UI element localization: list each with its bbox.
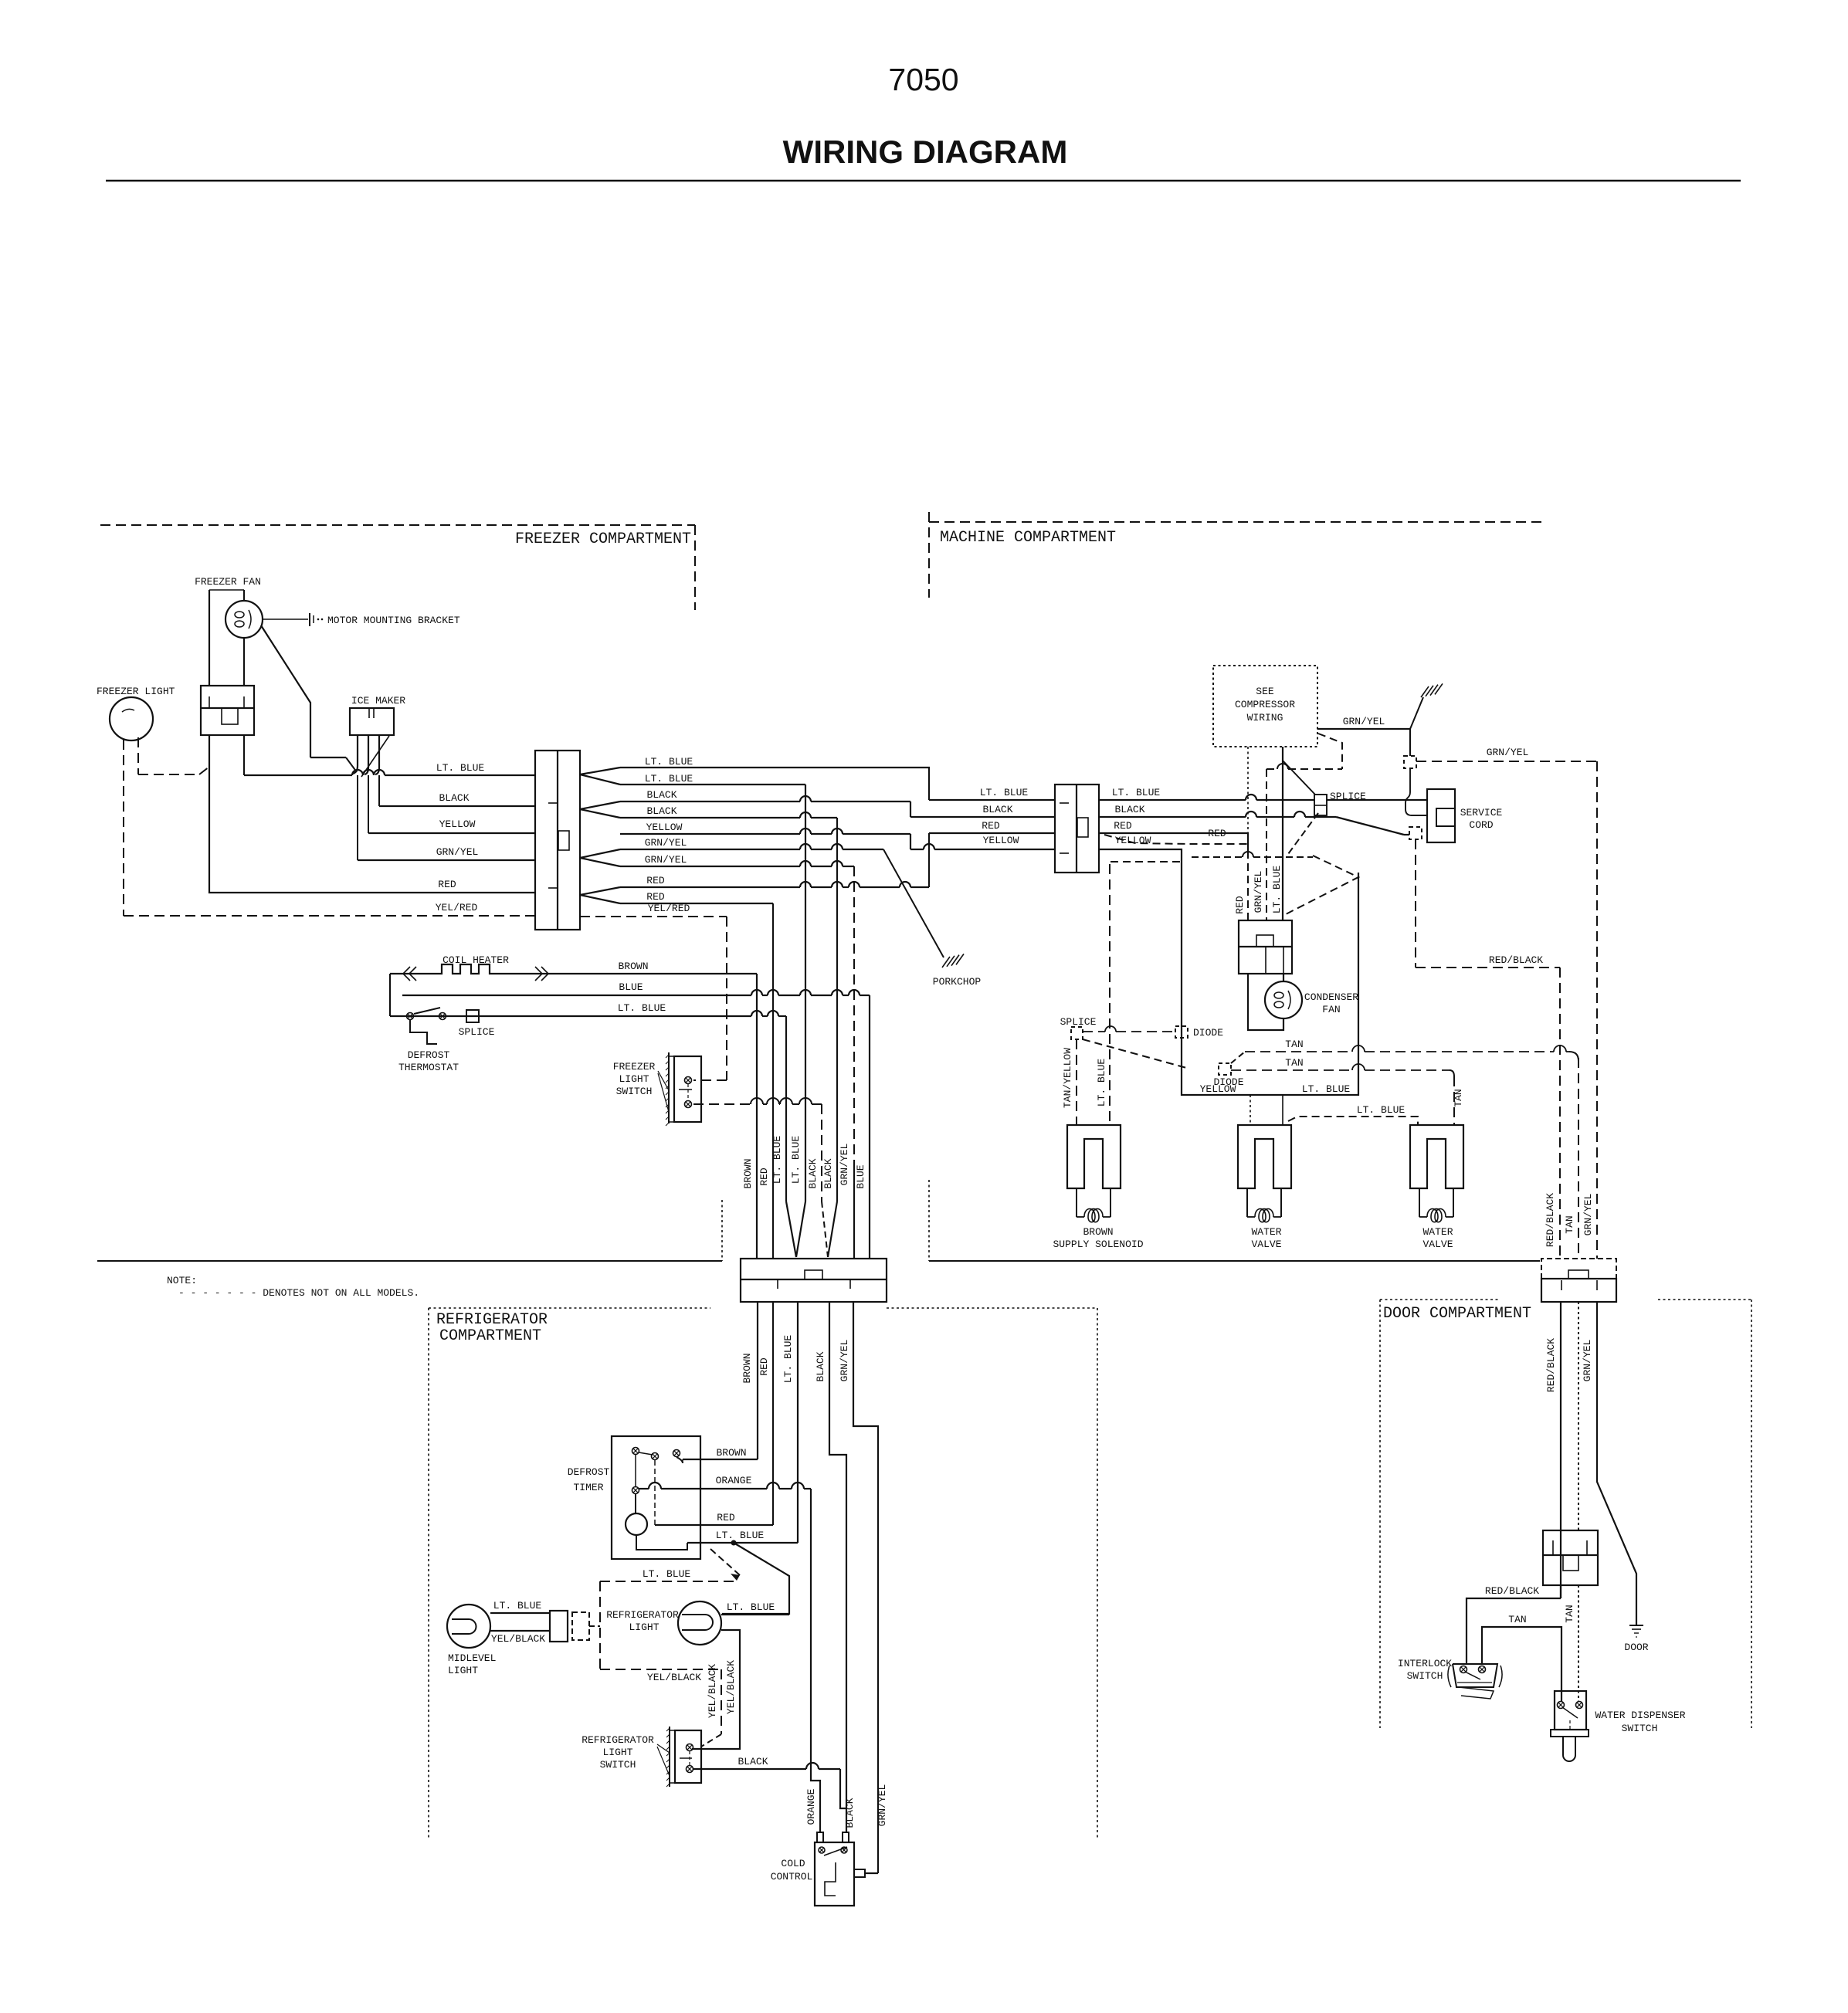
svg-text:VALVE: VALVE: [1251, 1239, 1281, 1250]
wire pair RED out of C1: [580, 887, 620, 895]
svg-text:FREEZER COMPARTMENT: FREEZER COMPARTMENT: [515, 530, 691, 548]
door connector D2: [1543, 1530, 1598, 1585]
brown supply solenoid SOL1: [1067, 1125, 1121, 1188]
svg-text:ORANGE: ORANGE: [716, 1475, 752, 1486]
wire BROWN vertical drop: [756, 974, 758, 1259]
svg-text:YELLOW: YELLOW: [646, 822, 683, 833]
svg-text:RED: RED: [438, 879, 456, 890]
svg-text:INTERLOCK: INTERLOCK: [1398, 1658, 1452, 1669]
freezer fan label underline: [209, 589, 244, 591]
wire RED freezer fan to connector C1: [209, 735, 535, 893]
wire BLACK b turns down: [620, 817, 800, 818]
svg-text:THERMOSTAT: THERMOSTAT: [398, 1062, 459, 1073]
svg-text:SPLICE: SPLICE: [459, 1026, 495, 1038]
svg-text:MOTOR MOUNTING BRACKET: MOTOR MOUNTING BRACKET: [327, 615, 460, 626]
svg-text:LT. BLUE: LT. BLUE: [782, 1335, 794, 1384]
svg-text:RED: RED: [1208, 828, 1226, 839]
door compartment border left: [1379, 1300, 1381, 1728]
svg-text:FREEZER: FREEZER: [613, 1061, 656, 1073]
svg-text:SWITCH: SWITCH: [1622, 1723, 1658, 1734]
splice S2: [1314, 795, 1327, 815]
freezer compartment border top: [100, 524, 695, 526]
interlock switch SW3: [1453, 1664, 1497, 1687]
svg-text:ORANGE: ORANGE: [805, 1788, 817, 1825]
diode D2: [1219, 1063, 1231, 1075]
svg-text:DEFROST: DEFROST: [568, 1466, 610, 1478]
svg-text:DOOR COMPARTMENT: DOOR COMPARTMENT: [1383, 1305, 1531, 1323]
svg-text:GRN/YEL: GRN/YEL: [436, 846, 479, 858]
svg-text:LIGHT: LIGHT: [629, 1622, 659, 1633]
wire LT. BLUE b turns down: [620, 784, 805, 785]
svg-text:RED: RED: [982, 820, 1000, 832]
see compressor wiring box: [1213, 666, 1317, 747]
door ground symbol: [1629, 1625, 1643, 1626]
svg-text:BLUE: BLUE: [619, 981, 643, 993]
svg-text:BLACK: BLACK: [815, 1351, 826, 1381]
wire YELLOW to connector C2m: [620, 833, 800, 835]
svg-text:LT. BLUE: LT. BLUE: [1357, 1104, 1405, 1116]
wire ORANGE vertical: [811, 1489, 820, 1832]
wire dashed splice diagonal to diode D2: [1083, 1039, 1189, 1069]
svg-text:DOOR: DOOR: [1624, 1642, 1648, 1653]
connector C2 (refrigerator harness): [741, 1259, 887, 1302]
wire BLACK refrigerator light switch: [693, 1768, 806, 1770]
wire TAN dashed down to door connector: [1578, 1058, 1579, 1259]
connector midlevel light mate (dashed): [572, 1612, 589, 1640]
connector C2m (machine harness): [1055, 785, 1099, 873]
svg-text:GRN/YEL: GRN/YEL: [645, 854, 687, 866]
svg-text:DIODE: DIODE: [1213, 1076, 1243, 1088]
condenser fan M2: [1265, 981, 1302, 1018]
machine compartment border bottom: [929, 1260, 1540, 1262]
wire RED into vertical: [1099, 832, 1248, 834]
svg-text:CONDENSER: CONDENSER: [1304, 991, 1358, 1003]
svg-text:TAN: TAN: [1453, 1089, 1464, 1106]
water valve 1 pin feeds: [1250, 1095, 1251, 1125]
svg-text:BROWN: BROWN: [716, 1447, 746, 1459]
machine compartment border left stub: [928, 512, 930, 598]
porkchop lead: [883, 849, 944, 957]
svg-text:BLACK: BLACK: [439, 792, 469, 804]
wire LT. BLUE refrigerator light: [721, 1614, 789, 1615]
wire LT. BLUE midlevel light: [490, 1612, 550, 1614]
coil heater R1: [432, 964, 499, 974]
door compartment border top-left segment: [1380, 1299, 1500, 1300]
coil heater chevron right: [535, 967, 548, 981]
defrost timer contacts: [632, 1448, 639, 1455]
svg-text:ICE MAKER: ICE MAKER: [351, 695, 405, 707]
svg-text:YEL/BLACK: YEL/BLACK: [725, 1660, 737, 1714]
svg-text:YEL/RED: YEL/RED: [436, 902, 478, 913]
svg-text:LT. BLUE: LT. BLUE: [980, 787, 1029, 798]
wire GRN/YEL below D1: [1597, 1302, 1636, 1625]
svg-text:WATER DISPENSER: WATER DISPENSER: [1595, 1710, 1685, 1721]
svg-text:TIMER: TIMER: [573, 1482, 603, 1493]
svg-text:RED: RED: [758, 1167, 770, 1186]
svg-text:TAN: TAN: [1285, 1057, 1303, 1069]
svg-text:YELLOW: YELLOW: [983, 835, 1019, 846]
wire ice maker diagonal lead: [361, 736, 389, 777]
svg-text:WIRING DIAGRAM: WIRING DIAGRAM: [783, 134, 1068, 170]
svg-text:SUPPLY SOLENOID: SUPPLY SOLENOID: [1053, 1239, 1143, 1250]
wire dashed splice to diode D1: [1083, 1031, 1105, 1032]
wire LT. BLUE connector B1 to C1: [243, 735, 245, 775]
dashed GRN/YEL from compressor to condenser fan block: [1318, 734, 1342, 769]
coil heater chevron left: [403, 967, 416, 981]
inline connector GRN/YEL (dashed square): [1404, 756, 1416, 768]
door connector D1: [1541, 1259, 1616, 1279]
water valve V1: [1238, 1125, 1291, 1188]
wire GRN/YEL a to porkchop: [620, 849, 800, 850]
wire GRN/YEL b turns down (dashed): [620, 866, 800, 867]
wire freezer light lead LT. BLUE (dashed): [137, 737, 139, 774]
wire TAN 1 dashed: [1231, 1052, 1245, 1063]
svg-text:RED/BLACK: RED/BLACK: [1485, 1585, 1539, 1597]
svg-text:GRN/YEL: GRN/YEL: [877, 1784, 888, 1827]
wire GRN/YEL down to inline connector: [1409, 729, 1411, 756]
svg-text:GRN/YEL: GRN/YEL: [1582, 1194, 1594, 1236]
svg-text:YELLOW: YELLOW: [1115, 835, 1151, 846]
wire RED/BLACK dashed down: [1415, 839, 1416, 968]
wire LT. BLUE dashed valve1 to valve2: [1288, 1117, 1418, 1125]
svg-text:BROWN: BROWN: [1083, 1226, 1113, 1238]
svg-text:RED/BLACK: RED/BLACK: [1545, 1193, 1556, 1247]
wire RED defrost timer: [655, 1524, 773, 1526]
svg-text:BLACK: BLACK: [1114, 804, 1144, 815]
wire BLUE vertical drop: [869, 995, 870, 1259]
wire TAN/YELLOW dashed to solenoid: [1076, 1039, 1077, 1125]
midlevel light L3: [447, 1605, 490, 1648]
wire GRN/YEL into cold control: [865, 1872, 878, 1874]
wire TAN below D1 (dotted): [1578, 1302, 1579, 1530]
wire freezer light lead YEL/RED (dashed): [123, 740, 124, 916]
defrost thermostat TH1: [407, 1013, 414, 1020]
svg-text:LT. BLUE: LT. BLUE: [1302, 1083, 1351, 1095]
svg-text:RED: RED: [1114, 820, 1132, 832]
wire LT. BLUE a to connector C2m: [620, 768, 929, 800]
splice S1: [466, 1010, 479, 1022]
refrigerator compartment border right: [1097, 1308, 1098, 1838]
service cord plug: [1427, 789, 1455, 842]
svg-text:BLACK: BLACK: [738, 1756, 768, 1767]
svg-text:YEL/RED: YEL/RED: [648, 903, 690, 914]
svg-text:RED/BLACK: RED/BLACK: [1545, 1338, 1557, 1392]
diode D1: [1175, 1026, 1188, 1038]
svg-text:WATER: WATER: [1422, 1226, 1453, 1238]
ground symbol compressor: [1410, 697, 1423, 729]
title underline: [106, 180, 1741, 182]
compressor lead dotted: [1247, 747, 1249, 832]
wire coil heater left end: [389, 974, 391, 1016]
wire GRN/YEL into C1: [358, 859, 535, 861]
door compartment border top-right segment: [1658, 1299, 1751, 1300]
freezer compartment border right stub: [694, 525, 696, 610]
wire LT. BLUE to refrigerator light: [722, 1543, 789, 1614]
svg-text:REFRIGERATOR: REFRIGERATOR: [582, 1734, 654, 1746]
refrigerator light switch pointer: [657, 1744, 670, 1753]
svg-text:RED: RED: [758, 1357, 770, 1376]
LT. BLUE dashed zigzag to condenser fan: [1110, 861, 1183, 862]
svg-text:LIGHT: LIGHT: [619, 1073, 649, 1085]
alternate LT. BLUE dashed path: [600, 1581, 738, 1582]
wire BLACK dashed from freezer light switch: [693, 1103, 751, 1105]
cold control CC1: [815, 1842, 854, 1906]
svg-text:GRN/YEL: GRN/YEL: [1487, 747, 1529, 758]
svg-text:REFRIGERATOR: REFRIGERATOR: [606, 1609, 679, 1621]
svg-text:SWITCH: SWITCH: [1407, 1670, 1443, 1682]
wire RED b turns down: [620, 903, 773, 904]
svg-text:BROWN: BROWN: [741, 1353, 753, 1383]
svg-text:LT. BLUE: LT. BLUE: [716, 1530, 765, 1541]
svg-text:FREEZER LIGHT: FREEZER LIGHT: [97, 686, 175, 697]
svg-text:BLACK: BLACK: [822, 1158, 834, 1188]
wire RED a to connector C2m: [620, 886, 800, 888]
svg-text:GRN/YEL: GRN/YEL: [839, 1144, 850, 1186]
machine compartment border top: [929, 521, 1542, 523]
wire BLACK diagonal to inline connector: [1099, 816, 1246, 818]
splice S3: [1071, 1027, 1083, 1039]
machine compartment border bottom-left stub: [928, 1180, 930, 1261]
svg-text:COLD: COLD: [781, 1858, 805, 1869]
connector midlevel light: [550, 1611, 568, 1642]
wire YEL/BLACK refrigerator light: [692, 1630, 740, 1749]
wire LT. BLUE coil heater: [390, 1015, 751, 1017]
svg-text:RED: RED: [646, 891, 665, 903]
svg-text:LT. BLUE: LT. BLUE: [618, 1002, 666, 1014]
freezer light switch pointer: [658, 1071, 669, 1090]
svg-text:LT. BLUE: LT. BLUE: [1112, 787, 1161, 798]
wire ice maker pin 1 to GRN/YEL: [353, 735, 358, 774]
wire LT. BLUE b vertical drop: [805, 785, 806, 1201]
wire BROWN coil heater: [390, 973, 432, 974]
door compartment border right: [1751, 1300, 1752, 1728]
wire GRN/YEL dashed to door: [1416, 761, 1597, 762]
wire pair LT. BLUE out of C1: [580, 768, 620, 774]
wire GRN/YEL pigtail into service cord: [1405, 768, 1426, 815]
svg-text:LT. BLUE: LT. BLUE: [771, 1136, 783, 1184]
svg-text:TAN: TAN: [1508, 1614, 1526, 1625]
svg-text:7050: 7050: [888, 62, 958, 97]
svg-text:YEL/BLACK: YEL/BLACK: [707, 1664, 718, 1718]
wire YELLOW into C1: [368, 832, 535, 834]
wire RED/BLACK dashed down to door connector: [1559, 968, 1561, 1259]
svg-text:CORD: CORD: [1469, 819, 1493, 831]
wire ice maker pin 3 to BLACK: [375, 735, 379, 774]
svg-text:TAN: TAN: [1564, 1605, 1575, 1622]
wire BROWN defrost timer: [676, 1457, 683, 1463]
wire YEL/RED dashed right of C1: [580, 916, 727, 917]
water valve V2: [1410, 1125, 1463, 1188]
svg-text:LT. BLUE: LT. BLUE: [643, 1568, 691, 1580]
svg-text:YEL/BLACK: YEL/BLACK: [647, 1672, 701, 1683]
wire GRN/YEL below C2: [853, 1302, 878, 1873]
svg-text:CONTROL: CONTROL: [771, 1871, 813, 1883]
svg-text:RED/BLACK: RED/BLACK: [1489, 954, 1543, 966]
wire YELLOW down and along box bottom: [1099, 849, 1358, 1095]
svg-text:BLUE: BLUE: [855, 1164, 866, 1188]
svg-text:SPLICE: SPLICE: [1060, 1016, 1097, 1028]
wire BLACK b vertical drop: [836, 818, 838, 1201]
wire freezer fan top lead: [243, 590, 245, 601]
wire TAN 2 dashed: [1231, 1069, 1352, 1071]
svg-text:SWITCH: SWITCH: [600, 1759, 636, 1771]
condenser fan leads: [1283, 974, 1284, 981]
svg-text:YELLOW: YELLOW: [439, 818, 476, 830]
freezer light switch SW1: [674, 1056, 701, 1122]
svg-text:VALVE: VALVE: [1422, 1239, 1453, 1250]
svg-text:BLACK: BLACK: [646, 805, 676, 817]
svg-text:LT. BLUE: LT. BLUE: [645, 756, 693, 768]
wire LT. BLUE defrost timer: [687, 1542, 798, 1544]
connector B1 (fan/light connector): [201, 686, 254, 735]
inline connector RED/BLACK (dashed square): [1409, 827, 1422, 839]
svg-text:GRN/YEL: GRN/YEL: [1343, 716, 1385, 727]
svg-text:LT. BLUE: LT. BLUE: [493, 1600, 542, 1611]
compressor lead to splice: [1282, 747, 1283, 920]
svg-text:SWITCH: SWITCH: [616, 1086, 653, 1097]
dashed splice branch: [1288, 813, 1318, 854]
svg-text:LIGHT: LIGHT: [448, 1665, 478, 1676]
svg-text:BROWN: BROWN: [618, 961, 648, 972]
wire ice maker pin 2 to YELLOW: [365, 735, 368, 774]
svg-text:BLACK: BLACK: [844, 1798, 856, 1828]
wire LT. BLUE dashed down to solenoid: [1109, 864, 1110, 1125]
svg-text:RED: RED: [646, 875, 665, 886]
svg-text:FAN: FAN: [1322, 1004, 1340, 1015]
wire freezer fan bottom lead: [243, 638, 245, 686]
svg-text:TAN: TAN: [1564, 1215, 1575, 1233]
wire LT. BLUE splice to service cord: [1327, 799, 1427, 801]
ice maker IM1: [350, 708, 394, 735]
freezer light L1: [110, 697, 153, 740]
wire YEL/RED dashed down to freezer light switch: [726, 917, 727, 1080]
motor mounting bracket symbol: [309, 613, 310, 626]
motor mounting bracket pointer: [263, 618, 308, 620]
wire RED below C2: [772, 1302, 774, 1525]
svg-text:WIRING: WIRING: [1247, 712, 1283, 724]
wire BROWN below C2: [757, 1302, 758, 1459]
wire TAN below D2 (dotted): [1578, 1585, 1579, 1701]
svg-text:LT. BLUE: LT. BLUE: [727, 1601, 775, 1613]
wire RED/BLACK below D1: [1560, 1302, 1561, 1598]
wire YEL/BLACK midlevel light: [490, 1630, 550, 1632]
dashed YEL/BLACK alternate: [599, 1581, 601, 1669]
wire BLACK a to connector C2m: [620, 801, 800, 802]
wire freezer fan left lead: [209, 590, 210, 686]
svg-text:RED: RED: [1234, 896, 1246, 914]
svg-text:LT. BLUE: LT. BLUE: [790, 1136, 802, 1184]
RED dashed branch to condenser fan: [1104, 835, 1248, 844]
condenser fan block: [1239, 920, 1292, 974]
wire pair GRN/YEL out of C1: [580, 849, 620, 858]
refrigerator light L2: [678, 1601, 721, 1645]
wire fan motor diagonal to ice maker area: [261, 625, 310, 757]
svg-text:TAN: TAN: [1285, 1039, 1303, 1050]
refrigerator compartment border left: [428, 1308, 429, 1838]
svg-text:LT. BLUE: LT. BLUE: [436, 762, 485, 774]
wire TAN interlock to dispenser: [1482, 1627, 1561, 1701]
wire LT. BLUE below C2: [797, 1302, 799, 1543]
svg-text:NOTE:: NOTE:: [167, 1275, 197, 1286]
svg-text:BLACK: BLACK: [982, 804, 1012, 815]
freezer fan motor M1: [225, 601, 263, 638]
svg-text:BLACK: BLACK: [646, 789, 676, 801]
wire RED/BLACK to interlock switch: [1560, 1585, 1561, 1598]
svg-text:LIGHT: LIGHT: [602, 1747, 632, 1758]
refrigerator light switch SW2: [675, 1730, 701, 1783]
wire LT. BLUE vertical drop: [785, 1016, 787, 1201]
wire BLACK below C2: [829, 1302, 846, 1832]
svg-text:DIODE: DIODE: [1193, 1027, 1223, 1039]
svg-text:TAN/YELLOW: TAN/YELLOW: [1062, 1048, 1073, 1108]
svg-text:MIDLEVEL: MIDLEVEL: [448, 1652, 496, 1664]
svg-text:LT. BLUE: LT. BLUE: [645, 773, 693, 785]
svg-text:BROWN: BROWN: [742, 1158, 754, 1188]
wire BLUE coil heater: [402, 995, 751, 996]
svg-text:LT. BLUE: LT. BLUE: [1096, 1059, 1107, 1107]
freezer compartment border bottom-right stub: [721, 1200, 723, 1261]
svg-text:GRN/YEL: GRN/YEL: [645, 837, 687, 849]
refrigerator compartment border top-right segment: [887, 1307, 1097, 1309]
refrigerator compartment border top-left segment: [429, 1307, 710, 1309]
svg-text:WATER: WATER: [1251, 1226, 1281, 1238]
wire GRN/YEL compressor pigtail: [1317, 728, 1410, 730]
wire RED/BLACK dashed across: [1416, 967, 1560, 968]
svg-text:GRN/YEL: GRN/YEL: [1582, 1340, 1593, 1382]
defrost timer motor: [626, 1513, 647, 1535]
svg-text:GRN/YEL: GRN/YEL: [1253, 871, 1264, 913]
wire pair BLACK out of C1: [580, 801, 620, 809]
defrost timer DT1: [612, 1436, 700, 1559]
svg-text:SEE: SEE: [1256, 686, 1274, 697]
wire freezer fan circuit horizontal: [310, 757, 346, 758]
svg-text:RED: RED: [717, 1512, 735, 1523]
wire RED vertical drop: [772, 903, 774, 1259]
svg-text:FREEZER FAN: FREEZER FAN: [195, 576, 261, 588]
svg-text:LT. BLUE: LT. BLUE: [1271, 866, 1283, 914]
svg-text:YEL/BLACK: YEL/BLACK: [491, 1633, 545, 1645]
water dispenser switch SW4: [1555, 1691, 1586, 1730]
wire GRN/YEL vertical drop: [853, 866, 855, 1162]
wire ORANGE defrost timer: [639, 1488, 649, 1489]
svg-text:- - - - - - - DENOTES NOT ON A: - - - - - - - DENOTES NOT ON ALL MODELS.: [178, 1287, 419, 1299]
svg-text:REFRIGERATOR: REFRIGERATOR: [436, 1311, 548, 1329]
freezer compartment border bottom: [97, 1260, 722, 1262]
svg-text:DEFROST: DEFROST: [408, 1049, 450, 1061]
svg-text:MACHINE COMPARTMENT: MACHINE COMPARTMENT: [940, 529, 1116, 547]
svg-text:COMPARTMENT: COMPARTMENT: [439, 1327, 541, 1345]
svg-text:BLACK: BLACK: [807, 1158, 819, 1188]
porkchop hatch: [942, 957, 950, 968]
wire BLACK into C1: [379, 805, 535, 807]
wire YEL/RED dashed into C1: [124, 915, 535, 917]
svg-text:GRN/YEL: GRN/YEL: [839, 1340, 850, 1382]
svg-text:PORKCHOP: PORKCHOP: [933, 976, 982, 988]
wire LT. BLUE to splice S2: [1099, 799, 1246, 801]
svg-text:COMPRESSOR: COMPRESSOR: [1235, 699, 1295, 710]
connector C1 (freezer harness): [535, 751, 580, 930]
svg-text:SERVICE: SERVICE: [1460, 807, 1503, 818]
